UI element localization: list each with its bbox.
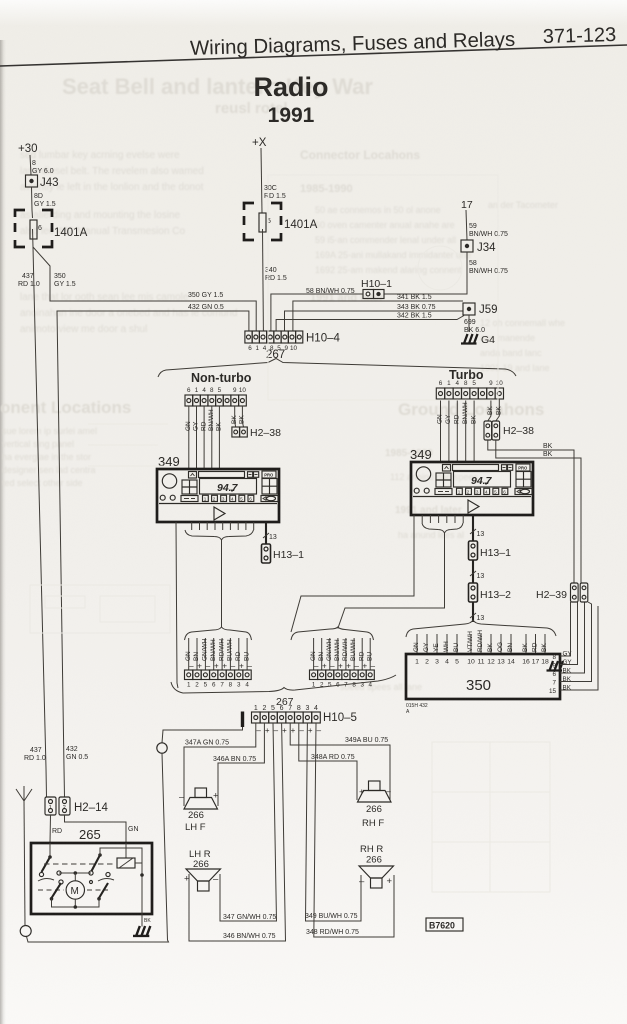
svg-text:+: + (265, 726, 270, 735)
svg-text:H13–2: H13–2 (480, 589, 511, 601)
connector strip 267 H10-4 (245, 331, 303, 343)
svg-text:2: 2 (213, 496, 216, 501)
header rule (0, 45, 627, 66)
265 internals: switch lower-right (99, 883, 108, 898)
svg-text:30C: 30C (264, 185, 277, 192)
svg-text:6: 6 (280, 705, 284, 712)
antenna-side line A (turbo) (291, 515, 414, 632)
amp right-side wire labels (563, 651, 573, 692)
svg-text:GN: GN (437, 414, 444, 424)
svg-text:2: 2 (63, 805, 66, 811)
non-turbo strip pin numbers (187, 387, 246, 394)
svg-text:2: 2 (467, 489, 470, 494)
radio unit 349 (turbo) (411, 462, 533, 515)
reference box B7620 (426, 918, 463, 931)
svg-text:RD 1.0: RD 1.0 (24, 755, 46, 762)
svg-text:RD: RD (532, 642, 539, 652)
svg-text:+30: +30 (18, 143, 38, 155)
variant split brace (158, 359, 516, 378)
svg-text:RD: RD (200, 421, 207, 431)
svg-text:BK: BK (144, 918, 151, 924)
265 internals: bottom rail (52, 899, 100, 907)
wire 343 BK 0.75 (285, 311, 464, 331)
svg-text:1: 1 (256, 345, 260, 352)
svg-text:1: 1 (415, 659, 419, 666)
svg-text:BN: BN (507, 643, 514, 652)
H10-4 pin numbers (248, 345, 297, 352)
wire VT/WH (amp in 10) (470, 634, 472, 654)
ghost bleed-through circuit shapes (decorative) (30, 175, 550, 892)
wire BK lower to H2-39 (496, 440, 581, 583)
speaker 266 LH R (184, 869, 221, 891)
svg-text:BK 6.0: BK 6.0 (464, 327, 485, 334)
svg-text:GY 1.5: GY 1.5 (34, 201, 56, 208)
wire OG (amp in 13) (500, 634, 502, 654)
svg-text:–: – (179, 792, 185, 803)
svg-text:6: 6 (187, 387, 191, 394)
svg-text:–: – (317, 726, 322, 735)
svg-text:BK: BK (216, 422, 223, 431)
svg-text:GN: GN (413, 642, 420, 652)
wire 8 GY 6.0 (30, 155, 31, 175)
turbo radio output comb (422, 515, 463, 523)
svg-text:8: 8 (32, 160, 36, 167)
svg-text:13: 13 (477, 573, 485, 580)
wire GN (amp in 1) (416, 634, 418, 654)
svg-text:14: 14 (507, 659, 515, 666)
svg-text:10: 10 (496, 380, 504, 387)
wire BN (turbo out 2) (321, 638, 323, 670)
wire BU/WH (non-turbo out 6) (229, 638, 231, 670)
amp right-side pin numbers (549, 654, 557, 695)
svg-text:17: 17 (461, 199, 473, 211)
svg-text:+: + (322, 662, 327, 671)
svg-text:+X: +X (252, 137, 267, 149)
svg-text:7: 7 (220, 682, 224, 689)
wire 348A RD 0.75 (299, 723, 357, 800)
svg-text:1: 1 (195, 387, 199, 394)
svg-text:BU/WH: BU/WH (350, 639, 357, 661)
svg-text:5: 5 (455, 659, 459, 666)
wire 58 BN/WH 0.75 to connector 267 (271, 294, 363, 331)
svg-text:BK: BK (470, 415, 477, 424)
svg-text:349: 349 (410, 447, 432, 462)
speaker 266 RH R (359, 866, 394, 888)
junction J43 (26, 175, 59, 189)
amplifier input brace (406, 620, 556, 637)
svg-text:1: 1 (204, 496, 207, 501)
svg-text:4: 4 (202, 387, 206, 394)
connector strip 267 H10-5 (252, 712, 321, 723)
svg-text:7: 7 (552, 680, 556, 687)
svg-text:GN: GN (185, 421, 192, 431)
wire 699 BK 6.0 (468, 315, 470, 332)
ground (antenna unit) (133, 926, 150, 936)
ground G4 (461, 334, 478, 344)
svg-text:5: 5 (240, 496, 243, 501)
svg-text:GY: GY (423, 642, 430, 652)
wire BU (turbo out 8) (369, 638, 371, 670)
H10-5 pin numbers (254, 705, 318, 712)
wire 58 BN/WH 0.75 to H10-1 (384, 252, 467, 294)
in-line connector H10-1 (363, 290, 384, 299)
turbo radio connector strip (436, 388, 503, 399)
svg-text:437: 437 (22, 273, 34, 280)
svg-text:432 GN 0.5: 432 GN 0.5 (188, 304, 224, 311)
in-line connector H13-1 non-turbo (262, 544, 271, 563)
antenna coax screen stub (241, 712, 244, 728)
svg-text:H10–4: H10–4 (306, 333, 340, 345)
svg-text:1: 1 (187, 682, 191, 689)
svg-text:–: – (206, 662, 211, 671)
svg-text:+: + (387, 876, 393, 887)
svg-text:13: 13 (477, 531, 485, 538)
svg-text:H13–1: H13–1 (480, 547, 511, 559)
svg-text:WH: WH (443, 641, 450, 652)
svg-text:13: 13 (477, 615, 485, 622)
svg-text:BU/WH: BU/WH (227, 639, 234, 661)
svg-text:342 BK 1.5: 342 BK 1.5 (397, 313, 432, 320)
svg-text:+: + (213, 791, 219, 802)
svg-text:5: 5 (494, 489, 497, 494)
svg-text:RD 1.0: RD 1.0 (18, 281, 40, 288)
svg-text:5: 5 (271, 705, 275, 712)
wire BU/WH (turbo out 6) (353, 638, 355, 670)
in-line fuse unit 1401A (15, 210, 88, 247)
radio unit 349 (non-turbo) (157, 469, 279, 522)
svg-text:6: 6 (552, 671, 556, 678)
antenna symbol (16, 786, 32, 801)
svg-text:94.7: 94.7 (217, 482, 239, 494)
svg-text:432: 432 (66, 746, 78, 753)
in-line connector H2-39 (571, 583, 588, 602)
svg-text:RD/WH: RD/WH (218, 639, 225, 661)
antenna drive unit 265 (31, 843, 152, 914)
svg-text:349A BU 0.75: 349A BU 0.75 (345, 737, 388, 744)
svg-text:340: 340 (265, 267, 277, 274)
svg-text:8: 8 (229, 682, 233, 689)
wire 348 RD/WH 0.75 (314, 723, 394, 937)
svg-text:BU: BU (243, 652, 250, 661)
H10-5 polarity signs (256, 726, 321, 735)
wire 341 BK 1.5 (293, 301, 463, 331)
wire RD/WH (amp in 11) (480, 634, 482, 654)
svg-text:Non-turbo: Non-turbo (191, 371, 252, 385)
speaker 266 RH F (358, 781, 392, 802)
265 internals: dashed link upper (44, 863, 114, 865)
svg-text:G4: G4 (481, 334, 495, 346)
non-turbo radio feed wires (188, 406, 190, 469)
wires amp right side to H2-39 (560, 602, 571, 656)
svg-text:16: 16 (522, 659, 530, 666)
svg-text:+: + (359, 787, 365, 798)
svg-text:BU: BU (453, 643, 460, 652)
svg-text:3: 3 (435, 659, 439, 666)
wire 59 BN/WH 0.75 (466, 210, 467, 240)
wire BK (amp in 12) (490, 634, 492, 654)
svg-text:10: 10 (467, 659, 475, 666)
svg-text:94.7: 94.7 (471, 475, 493, 487)
in-line connector H2-38 (non-turbo) (232, 427, 247, 437)
svg-text:–: – (247, 662, 252, 671)
svg-text:BK: BK (487, 406, 494, 415)
svg-text:H2–39: H2–39 (536, 589, 567, 601)
svg-text:RD: RD (235, 651, 242, 661)
svg-text:9: 9 (552, 663, 556, 670)
svg-text:266: 266 (366, 855, 382, 866)
265 internals: contact rail (59, 872, 91, 874)
wire RD (turbo out 7) (361, 638, 363, 670)
in-line antenna connector (upper) (157, 743, 167, 753)
svg-text:1401A: 1401A (54, 227, 88, 239)
svg-text:–: – (359, 876, 365, 887)
svg-text:H2–14: H2–14 (74, 802, 108, 814)
svg-text:–: – (314, 662, 319, 671)
svg-text:GY 6.0: GY 6.0 (32, 168, 54, 175)
svg-text:VT/WH: VT/WH (467, 631, 474, 652)
wire RD (non-turbo out 7) (238, 638, 240, 670)
svg-text:PRO: PRO (264, 472, 274, 477)
turbo strip pin numbers (439, 380, 504, 387)
svg-text:LH F: LH F (185, 822, 206, 833)
svg-text:2: 2 (262, 705, 266, 712)
ground (amp internal) (547, 661, 564, 671)
svg-text:18: 18 (541, 659, 549, 666)
svg-text:J34: J34 (477, 242, 496, 254)
svg-text:BN/WH 0.75: BN/WH 0.75 (469, 268, 508, 275)
speaker 266 LH F (179, 788, 219, 809)
svg-text:+: + (282, 726, 287, 735)
svg-text:17: 17 (532, 659, 540, 666)
svg-text:J59: J59 (479, 304, 498, 316)
wire 349 BU/WH 0.75 (306, 723, 362, 921)
svg-text:RH F: RH F (362, 818, 384, 829)
svg-text:H10–1: H10–1 (361, 278, 392, 290)
in-line connector H2-38 (turbo) (484, 421, 500, 440)
svg-text:BN/WH 0.75: BN/WH 0.75 (469, 231, 508, 238)
header title (190, 24, 617, 60)
svg-text:BK: BK (231, 415, 238, 424)
svg-text:1401A: 1401A (284, 219, 318, 231)
svg-text:341 BK 1.5: 341 BK 1.5 (397, 294, 432, 301)
wire 30C RD 1.5 (261, 148, 262, 213)
svg-text:10: 10 (290, 345, 298, 352)
wire RD to unit 265 (49, 815, 52, 843)
svg-text:12: 12 (487, 659, 495, 666)
wire BN/WH (turbo out 4) (337, 638, 339, 670)
comb gather brace (non-turbo) (185, 530, 254, 540)
wire BK upper to H2-39 (488, 440, 574, 583)
svg-text:59: 59 (469, 223, 477, 230)
svg-text:347 GN/WH 0.75: 347 GN/WH 0.75 (223, 914, 276, 921)
wire through fuse (32, 210, 33, 247)
svg-text:10: 10 (239, 387, 247, 394)
svg-text:3: 3 (305, 705, 309, 712)
svg-text:H2–38: H2–38 (250, 427, 281, 439)
bundle wire down (221, 540, 223, 627)
wires BK to H2-38 (235, 406, 244, 427)
svg-text:4: 4 (485, 489, 488, 494)
title Radio 1991 (253, 72, 328, 127)
svg-text:266: 266 (366, 804, 382, 815)
svg-text:5: 5 (204, 682, 208, 689)
svg-text:GY: GY (193, 421, 200, 431)
wire 8D GY 1.5 (31, 187, 34, 210)
svg-text:4: 4 (245, 682, 249, 689)
265 internals: switch upper-right (92, 855, 101, 871)
wire 347A GN 0.75 (184, 723, 256, 806)
265 internals: supply switch upper-left (49, 843, 51, 857)
in-line fuse unit 1401A (244, 203, 318, 240)
svg-text:–: – (299, 726, 304, 735)
connector 267 gather brace (171, 675, 396, 693)
wire 346 BN/WH 0.75 (189, 723, 286, 941)
265 internals: switch lower-left (52, 883, 62, 898)
in-line connector H13-2 turbo (469, 583, 478, 602)
svg-text:GN/WH: GN/WH (202, 638, 209, 661)
svg-text:+: + (291, 726, 296, 735)
svg-text:9: 9 (233, 387, 237, 394)
svg-text:RD: RD (358, 651, 365, 661)
svg-text:8: 8 (552, 654, 556, 661)
svg-text:–: – (256, 726, 261, 735)
svg-text:349 BU/WH 0.75: 349 BU/WH 0.75 (305, 913, 358, 920)
svg-text:GN: GN (185, 651, 192, 661)
svg-text:–: – (189, 662, 194, 671)
svg-text:8: 8 (352, 682, 356, 689)
wire BU (amp in 5) (456, 634, 458, 654)
non-turbo radio connector strip (185, 395, 246, 406)
svg-text:6: 6 (38, 225, 42, 232)
svg-text:PRO: PRO (518, 465, 528, 470)
svg-text:13: 13 (269, 534, 277, 541)
svg-text:RD: RD (454, 414, 461, 424)
265 internals: coupling arcs (38, 878, 114, 881)
svg-text:349: 349 (158, 454, 180, 469)
svg-text:5: 5 (328, 682, 332, 689)
svg-text:+: + (308, 726, 313, 735)
wire BU (non-turbo out 8) (246, 638, 248, 670)
antenna mast wire (24, 801, 25, 926)
non-turbo output strip (185, 670, 252, 680)
wire YE (amp in 3) (436, 634, 438, 654)
svg-text:348A RD 0.75: 348A RD 0.75 (311, 754, 355, 761)
paper noise overlay (decorative) (0, 0, 1, 1)
svg-text:+: + (214, 662, 219, 671)
svg-text:6: 6 (503, 489, 506, 494)
wire 13 chain to H13 connectors (472, 515, 474, 622)
svg-text:RD 1.5: RD 1.5 (264, 193, 286, 200)
wire WH (amp in 4) (446, 634, 448, 654)
svg-text:BK: BK (543, 451, 553, 458)
svg-text:BK: BK (239, 415, 246, 424)
svg-text:6: 6 (212, 682, 216, 689)
svg-text:1: 1 (49, 805, 52, 811)
svg-text:H2–38: H2–38 (503, 425, 534, 437)
svg-text:343 BK 0.75: 343 BK 0.75 (397, 304, 436, 311)
svg-text:–: – (354, 662, 359, 671)
svg-text:11: 11 (477, 659, 484, 666)
svg-text:13: 13 (497, 659, 505, 666)
svg-text:RD: RD (52, 828, 62, 835)
svg-text:6: 6 (439, 380, 443, 387)
svg-text:–: – (213, 874, 219, 885)
svg-text:266: 266 (193, 859, 209, 870)
svg-text:58: 58 (469, 260, 477, 267)
svg-text:BK: BK (487, 643, 494, 652)
svg-text:RD/WH: RD/WH (342, 639, 349, 661)
svg-text:RH R: RH R (360, 844, 383, 855)
svg-text:1: 1 (447, 380, 451, 387)
svg-text:3: 3 (222, 496, 225, 501)
svg-text:–: – (231, 662, 236, 671)
svg-text:Wiring Diagrams, Fuses and Rel: Wiring Diagrams, Fuses and Relays (190, 29, 516, 60)
svg-text:4: 4 (445, 659, 449, 666)
svg-text:BN: BN (193, 652, 200, 661)
svg-text:4: 4 (314, 705, 318, 712)
turbo output strip (310, 670, 375, 680)
wire GN (non-turbo out 1) (188, 638, 190, 670)
wire RD (amp in 17) (535, 634, 537, 654)
svg-text:2: 2 (425, 659, 429, 666)
svg-text:GN: GN (310, 651, 317, 661)
svg-text:2: 2 (195, 682, 199, 689)
wire 349A BU 0.75 (290, 723, 390, 800)
wire BK (amp in 18) (544, 634, 546, 654)
svg-text:9: 9 (489, 380, 493, 387)
svg-text:–: – (330, 662, 335, 671)
wire 13 to H13-1 (non-turbo) (265, 522, 267, 544)
svg-text:–: – (386, 786, 392, 797)
svg-text:6: 6 (248, 345, 252, 352)
svg-text:GN 0.5: GN 0.5 (66, 754, 88, 761)
265 internals: dashed link lower (38, 889, 64, 891)
wire 342 BK 1.5 (276, 316, 464, 332)
svg-text:M: M (71, 886, 79, 897)
non-turbo radio output comb (192, 522, 254, 530)
svg-text:B7620: B7620 (429, 921, 455, 931)
svg-text:BK: BK (543, 443, 553, 450)
svg-text:350: 350 (54, 273, 66, 280)
junction J59 (463, 303, 498, 316)
junction J34 (461, 240, 496, 254)
svg-text:347A GN 0.75: 347A GN 0.75 (185, 740, 229, 747)
svg-text:+: + (338, 662, 343, 671)
wire 347 GN/WH 0.75 (220, 723, 277, 921)
svg-text:3: 3 (237, 682, 241, 689)
antenna lead stub (non-turbo radio) (176, 522, 178, 688)
wire 346A BN 0.75 (218, 723, 264, 806)
svg-text:8: 8 (297, 705, 301, 712)
wire GN/WH (turbo out 3) (329, 638, 331, 670)
svg-text:BN/WH: BN/WH (334, 639, 341, 661)
svg-text:58 BN/WH 0.75: 58 BN/WH 0.75 (306, 288, 355, 295)
svg-text:8: 8 (464, 380, 468, 387)
svg-text:–: – (371, 662, 376, 671)
svg-text:266: 266 (188, 810, 204, 821)
antenna coax wire (162, 727, 243, 743)
wire RD/WH (non-turbo out 5) (221, 638, 223, 670)
wire 432 GN 0.5 (57, 311, 249, 797)
svg-text:346A BN 0.75: 346A BN 0.75 (213, 756, 256, 763)
svg-text:YE: YE (433, 643, 440, 652)
wires BK to H2-38 (turbo) (488, 399, 500, 421)
svg-text:GY: GY (445, 414, 452, 424)
spread brace (non-turbo outputs) (185, 627, 252, 640)
amplifier unit 350 (406, 654, 560, 699)
svg-text:371-123: 371-123 (543, 24, 617, 48)
svg-text:1991: 1991 (268, 104, 315, 127)
